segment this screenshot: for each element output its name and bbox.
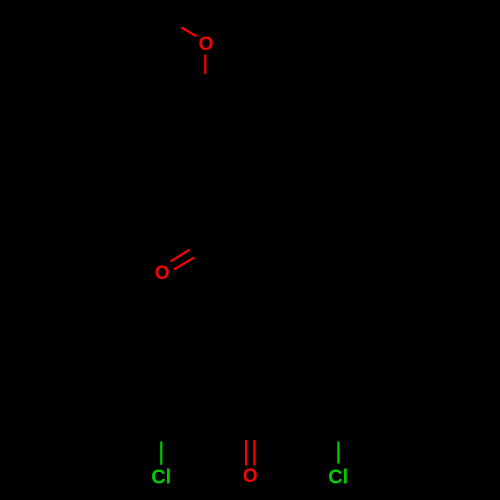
wire: right ring inner double-bond lines xyxy=(302,310,377,397)
wire: dark half of C8-Cl bond xyxy=(337,405,340,442)
wire: ketone C=O red half, lower line xyxy=(174,257,194,269)
wire: dark half of C1-Cl bond xyxy=(160,405,163,442)
wire: C9=O red half, left line xyxy=(245,440,247,466)
wire: red half of O-ring bond (vertical) xyxy=(204,55,206,74)
wire: dark halves of C9=O double bond xyxy=(245,409,247,440)
wire: carbonyl C to CH2 xyxy=(222,235,249,268)
wire: red half of CH3-O bond xyxy=(181,27,196,36)
wire: left ring inner double-bond lines xyxy=(123,310,198,397)
svg-text:Cl: Cl xyxy=(151,466,171,488)
wire: ketone C=O red half, upper line xyxy=(170,250,189,262)
wire: C9=O red half, right line xyxy=(253,440,255,466)
wire: ring C4 to carbonyl carbon xyxy=(206,208,223,235)
node: right benzo ring xyxy=(295,302,384,405)
wire: green half of C8-Cl bond xyxy=(337,442,339,464)
node: anthracenone middle ring xyxy=(205,302,294,405)
wire: green half of C1-Cl bond xyxy=(160,442,162,465)
wire: dark half of CH3-O bond (methyl end) xyxy=(156,12,181,28)
wire: CH2 to C10 of anthracenone xyxy=(249,268,250,302)
wire: dark halves of ketone C=O double bond xyxy=(190,233,217,249)
svg-text:Cl: Cl xyxy=(328,466,348,488)
wire: dark half of O-C1 bond into top ring xyxy=(204,74,206,105)
node: left benzo ring xyxy=(116,302,205,405)
svg-text:O: O xyxy=(199,34,214,55)
svg-text:O: O xyxy=(155,263,170,284)
wire: top ring inner double-bond lines xyxy=(169,113,244,200)
node: top benzene ring (4-methoxyphenyl) xyxy=(161,105,250,208)
svg-text:O: O xyxy=(243,466,258,487)
